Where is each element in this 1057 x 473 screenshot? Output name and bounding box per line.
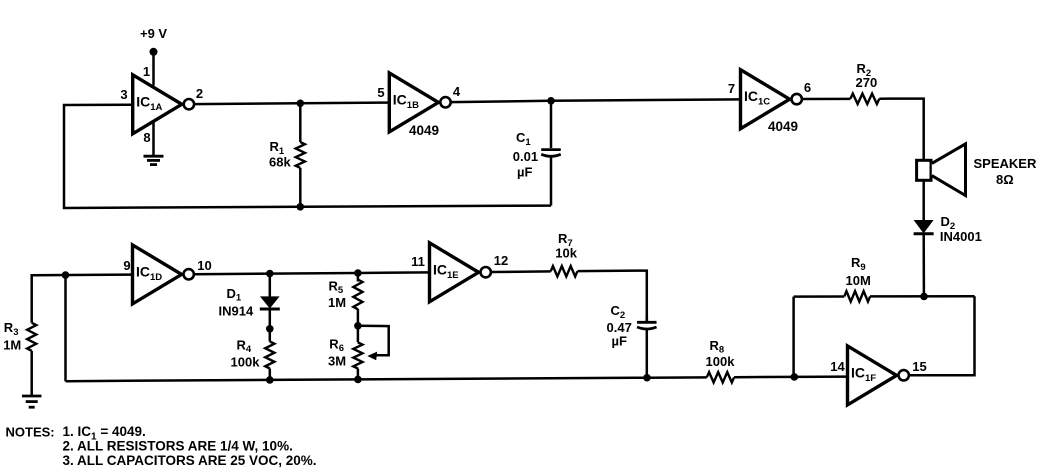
svg-text:2: 2 xyxy=(196,86,203,101)
svg-text:11: 11 xyxy=(411,254,425,269)
svg-text:5: 5 xyxy=(377,85,384,100)
svg-text:2. ALL RESISTORS ARE 1/4 W, 10: 2. ALL RESISTORS ARE 1/4 W, 10%. xyxy=(63,438,293,453)
svg-text:+9 V: +9 V xyxy=(140,26,167,41)
svg-text:10k: 10k xyxy=(555,246,577,261)
svg-text:7: 7 xyxy=(728,81,735,96)
svg-text:µF: µF xyxy=(517,165,532,180)
svg-text:4: 4 xyxy=(453,84,461,99)
svg-text:14: 14 xyxy=(830,359,845,374)
svg-text:6: 6 xyxy=(804,80,811,95)
svg-text:SPEAKER: SPEAKER xyxy=(974,156,1037,171)
svg-text:µF: µF xyxy=(612,334,627,349)
svg-text:NOTES:: NOTES: xyxy=(6,424,55,439)
svg-text:10: 10 xyxy=(197,258,211,273)
svg-text:IN4001: IN4001 xyxy=(940,229,982,244)
svg-text:0.01: 0.01 xyxy=(513,149,538,164)
svg-text:IN914: IN914 xyxy=(219,303,254,318)
svg-text:4049: 4049 xyxy=(768,119,798,134)
svg-text:10M: 10M xyxy=(846,273,871,288)
svg-text:3. ALL CAPACITORS ARE 25 VOC,: 3. ALL CAPACITORS ARE 25 VOC, 20%. xyxy=(63,453,317,468)
svg-text:3: 3 xyxy=(120,87,127,102)
svg-text:1M: 1M xyxy=(328,295,346,310)
svg-text:9: 9 xyxy=(123,258,130,273)
svg-text:100k: 100k xyxy=(706,354,736,369)
svg-text:1: 1 xyxy=(143,64,150,79)
svg-text:8: 8 xyxy=(143,130,150,145)
svg-text:15: 15 xyxy=(912,359,926,374)
svg-text:8Ω: 8Ω xyxy=(996,172,1014,187)
svg-text:12: 12 xyxy=(494,253,508,268)
svg-text:4049: 4049 xyxy=(409,123,439,138)
svg-text:270: 270 xyxy=(856,75,878,90)
svg-text:3M: 3M xyxy=(328,354,346,369)
svg-text:100k: 100k xyxy=(231,354,261,369)
svg-text:1M: 1M xyxy=(3,337,21,352)
svg-text:68k: 68k xyxy=(269,155,291,170)
